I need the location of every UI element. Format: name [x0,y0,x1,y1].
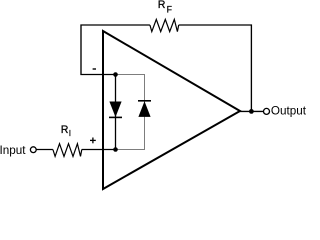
svg-text:I: I [69,128,71,138]
svg-text:F: F [167,4,173,14]
svg-text:R: R [158,0,166,11]
svg-text:Output: Output [271,105,307,118]
svg-text:Input: Input [0,144,26,157]
svg-text:R: R [61,124,69,136]
